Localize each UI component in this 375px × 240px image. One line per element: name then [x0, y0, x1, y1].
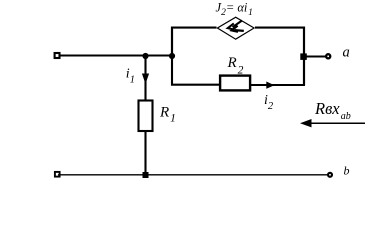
wire: R2 to right vertical	[251, 84, 305, 86]
terminal: bottom-left input port	[55, 172, 60, 177]
svg-text:a: a	[343, 45, 350, 61]
wire: diamond to right vertical	[255, 27, 305, 29]
double arrow inside dependent source	[228, 21, 244, 32]
wire: right vertical of parallel section	[303, 27, 305, 86]
wire: top branch to diamond	[171, 27, 217, 29]
wire: left node down to R2 branch	[172, 56, 220, 85]
junction: node at top of R1 branch	[142, 53, 148, 59]
terminal: top-left input port	[55, 53, 60, 58]
terminal a	[326, 54, 330, 58]
wire: node to terminal a	[304, 55, 326, 57]
wire: R1 bottom to bottom rail	[144, 131, 146, 175]
resistor R1	[139, 101, 153, 132]
current arrow i1 (downward)	[142, 74, 149, 85]
junction: node on bottom rail	[143, 172, 149, 178]
wire: left node up to controlled source branch	[171, 27, 173, 57]
arrow: input resistance direction (pointing left)	[300, 119, 365, 127]
wire: top rail from input terminal to node at R1	[60, 54, 146, 56]
resistor R2	[220, 76, 250, 91]
wire: node to left node of parallel section	[146, 54, 173, 56]
junction: node a branch point	[300, 53, 307, 60]
svg-text:b: b	[344, 164, 350, 178]
wire: R1 branch from node down to R1 top	[144, 56, 146, 101]
wire: bottom rail	[58, 174, 328, 176]
current arrow i2 (rightward)	[266, 82, 274, 89]
junction: left node of parallel section	[169, 53, 175, 59]
terminal b	[328, 173, 332, 177]
dependent current source J2 (diamond)	[217, 17, 254, 39]
